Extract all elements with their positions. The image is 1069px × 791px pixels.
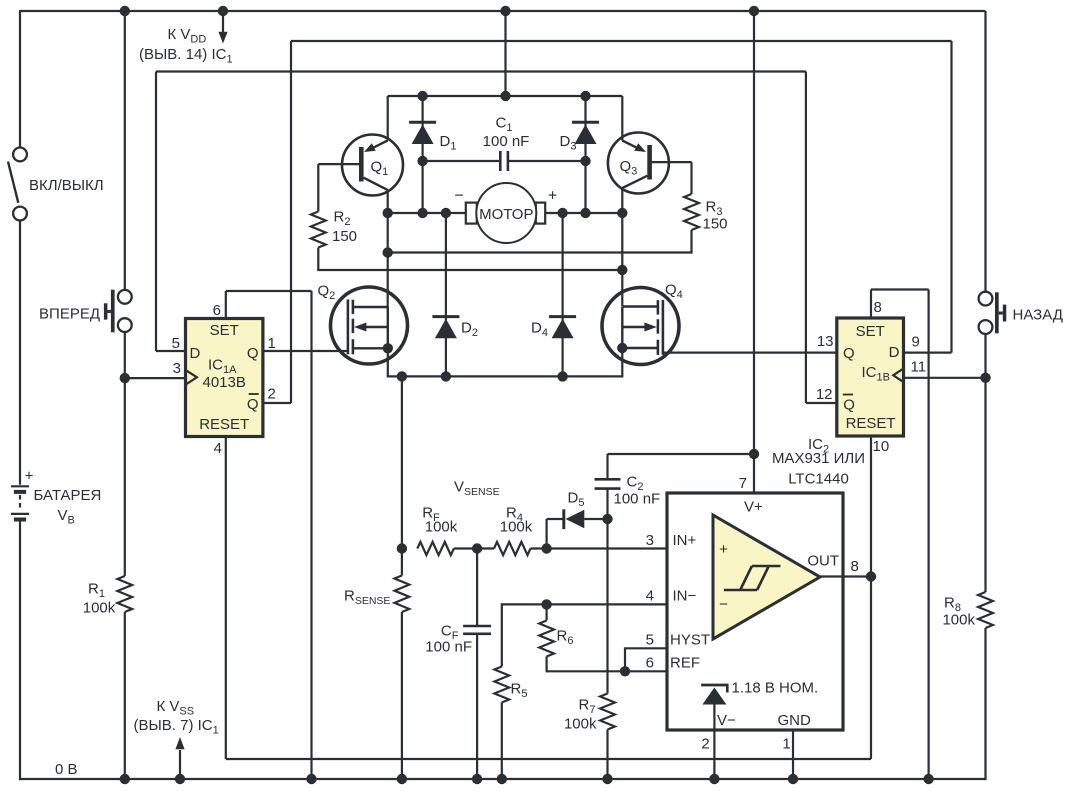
label CF [441,623,459,643]
svg-text:HYST: HYST [670,632,710,649]
svg-text:Q: Q [247,345,259,362]
label Q3 [620,158,638,178]
svg-text:V+: V+ [744,499,763,516]
label C2 [627,474,644,494]
resistor R2 [311,212,326,248]
wire: IC1B pin13 Q to Q4 gate [664,352,837,354]
wire: SET-A ground drop x311 [310,291,312,779]
wire: bridge feed x505 [504,11,506,96]
wire: Q1 base to R2 [317,164,319,211]
wire: R3 to Q2 drain node y252 [388,230,692,253]
junction: top rail / comparator V+ [749,6,759,16]
label V- [717,712,736,729]
svg-text:D: D [889,344,900,361]
resistor R6 [539,621,554,657]
svg-text:GND: GND [778,712,812,729]
svg-text:100k: 100k [425,519,458,536]
junction: REF node [620,666,630,676]
resistor R5 [494,667,509,703]
label IC1B pin13 [817,333,834,350]
svg-text:+: + [719,541,728,558]
label D3 [560,133,577,153]
label IC1B pin12 [816,386,833,403]
svg-text:OUT: OUT [807,553,839,570]
wire: GND pin [792,730,794,779]
capacitor CF [463,549,491,780]
transistor Q1 PNP [318,96,403,307]
wire: bridge source rail y376 [388,348,623,376]
pushbutton SW НАЗАД [979,292,1007,334]
resistor R7 [600,694,615,730]
label D2 [461,320,478,340]
wire: R2 to Q4 drain node y270 [318,248,622,271]
junction: top rail / D3 [580,91,590,101]
svg-text:6: 6 [646,655,654,672]
label IC1B RESET [846,415,896,432]
wire: HYST jumper [625,608,766,672]
label motor minus [454,188,463,205]
label Q2 [318,283,336,303]
wire: motor rail left [388,212,466,214]
resistor R8 [978,592,993,628]
wire: V+ feed [753,11,755,493]
label battery + [25,468,34,485]
junction: clock node B [980,373,990,383]
wire: left battery branch middle [19,220,21,484]
junction: top rail / bridge feed [500,6,510,16]
label R1 [88,581,105,601]
junction: RF / R4 / CF [472,543,482,553]
junction: top rail / feed [500,91,510,101]
wire: QbarA to IC1A pin2 [263,402,291,404]
junction: motor right / D4 [557,208,567,218]
svg-text:8: 8 [851,558,859,575]
label IC1A D [190,345,201,362]
label pin1 [782,736,790,753]
diode D3 [572,96,599,213]
label MAX931 ИЛИ [772,450,865,467]
wire: clock A to IC1A pin3 [125,377,186,379]
power tap К VSS (ВЫВ. 7) IC1 arrow [175,737,184,779]
motor M МОТОР [466,183,545,243]
junction: top rail / D1 [417,91,427,101]
label C2 100 nF [614,491,661,508]
label IC1A pin6 [213,302,221,319]
junction: IN- / R6 [541,599,551,609]
battery B1 V_B [11,486,29,519]
transistor Q2 NMOS [331,287,408,364]
svg-text:100k: 100k [500,519,533,536]
label R5 [511,681,528,701]
label ВКЛ/ВЫКЛ [29,177,104,194]
resistor RSENSE [395,576,410,613]
svg-text:0 В: 0 В [55,761,78,778]
label 1.18 В НОМ. [732,680,819,697]
svg-text:+: + [25,468,34,485]
wire: QbarB-to-DA rail y71 [156,70,806,72]
wire: button to clock node [124,332,126,576]
junction: motor right / Q3 collector [617,208,627,218]
svg-text:12: 12 [816,386,833,403]
wire: reset rail y759 [226,758,871,760]
svg-text:100k: 100k [564,716,597,733]
label IC2 [808,436,829,456]
label GND [778,712,812,729]
label К VSS [157,698,195,718]
svg-text:150: 150 [332,228,357,245]
label ВПЕРЕД [39,306,100,323]
label RF [422,505,440,525]
label R6 [557,628,574,648]
label triangle minus [719,596,728,613]
wire: R6 bottom to REF node [547,657,625,672]
svg-text:LTC1440: LTC1440 [788,471,849,488]
svg-text:НАЗАД: НАЗАД [1013,307,1063,324]
transistor Q4 NMOS [602,288,679,365]
IC1B clock triangle pin11 [893,369,903,383]
flip-flop IC1A 4013B body [186,319,263,437]
svg-text:2: 2 [268,386,276,403]
svg-text:100k: 100k [942,612,975,629]
wire: Rsense bottom [401,612,403,779]
wire: SET-B ground drop x928 [927,290,929,780]
label REF [670,655,700,672]
capacitor C2 [595,454,755,519]
svg-text:5: 5 [172,335,180,352]
label IC1A pin5 [172,335,180,352]
wire: top VDD rail [20,10,986,12]
svg-text:100 nF: 100 nF [483,133,530,150]
label LTC1440 [788,471,849,488]
transistor Q3 PNP [608,96,692,306]
svg-text:100 nF: 100 nF [614,491,661,508]
wire: QbarA riser x291 [290,41,292,403]
pushbutton SW ВПЕРЕД [104,290,132,333]
comparator IC2 triangle [713,515,820,639]
svg-text:−: − [719,596,728,613]
svg-text:IN+: IN+ [673,532,697,549]
IC1B Qbar overbar [843,394,853,396]
wire: left battery branch lower [19,522,21,781]
svg-text:Q: Q [247,396,259,413]
svg-text:Q: Q [843,397,855,414]
svg-text:1: 1 [268,335,276,352]
switch S1 ВКЛ/ВЫКЛ [8,148,27,221]
label IC1B Qbar [843,397,855,414]
diode D1 [409,96,436,213]
svg-text:7: 7 [739,475,747,492]
label V+ [744,499,763,516]
label IC1B SET [856,323,885,340]
label (ВЫВ. 7) IC1 [134,717,219,737]
label R3 [706,199,723,219]
svg-text:V−: V− [717,712,736,729]
svg-text:9: 9 [912,334,920,351]
label IN+ [673,532,697,549]
label IC1A RESET [199,416,249,433]
power tap К VDD (ВЫВ. 14) IC1 arrow [218,11,227,44]
label triangle plus [719,541,728,558]
label К VDD [168,26,207,46]
label IC1B pin11 [911,359,927,376]
svg-text:3: 3 [646,532,654,549]
junction: motor left / D2 [441,208,451,218]
junction: C1 right / D3 [580,156,590,166]
svg-text:13: 13 [817,333,834,350]
label (ВЫВ. 14) IC1 [139,46,233,66]
wire: IC1A pin4 RESET drop [225,437,227,760]
svg-text:(ВЫВ. 14) IC1: (ВЫВ. 14) IC1 [139,46,233,66]
flip-flop IC1B body [837,318,904,436]
label R2 [334,209,351,229]
svg-text:MAX931 ИЛИ: MAX931 ИЛИ [772,450,865,467]
label pin8 out [851,558,859,575]
wire: Rsense top [401,376,403,575]
svg-text:−: − [454,188,463,205]
label IC1A SET [210,322,239,339]
label R7 [579,697,596,717]
wire: IC1A pin6 SET [226,291,312,319]
label IC1A pin2 [268,386,276,403]
wire: bridge top rail y96 [388,95,623,97]
label HYST [670,632,710,649]
wire: REF line to reference [625,671,714,683]
svg-text:1: 1 [782,736,790,753]
junction: motor left / D1 [417,208,427,218]
diode D2 [432,213,459,376]
resistor R7 wire top [606,519,608,694]
label IC1A Q [247,345,259,362]
wire: R8 to 0V rail [984,628,986,780]
svg-text:RESET: RESET [846,415,896,432]
label НАЗАД [1013,307,1063,324]
wire: DB drop x951 [950,41,952,353]
wire: bottom 0V rail [19,778,986,780]
label R4 [506,505,523,525]
junction: GND / 0V [788,774,798,784]
wire: DA drop x156 [155,72,157,352]
svg-text:4013B: 4013B [203,374,246,391]
label IC1B [862,364,890,384]
label pin4 [646,588,654,605]
junction: R2 line / Q4 drain [617,265,627,275]
label C1 100 nF [483,133,530,150]
wire: IC1B pin9 D [904,352,952,354]
label V_B [58,507,75,527]
label pin6 [646,655,654,672]
svg-text:(ВЫВ. 7) IC1: (ВЫВ. 7) IC1 [134,717,219,737]
junction: motor left / Q1 collector [383,208,393,218]
wire: IC1B pin8 SET [871,290,929,319]
label IN- [673,588,697,605]
diode D4 [549,213,576,376]
label R7 100k [564,716,597,733]
wire: IC1A pin5 D [156,350,186,352]
label IC1B pin9 [912,334,920,351]
resistor R6 top wire [545,604,547,620]
label IC1B pin10 [873,438,890,455]
svg-text:ВПЕРЕД: ВПЕРЕД [39,306,100,323]
wire: R7 bottom [606,730,608,780]
junction: source rail / D4 [557,371,567,381]
label VSENSE [454,479,500,499]
junction: Rsense / 0V [397,774,407,784]
label R2 150 [332,228,357,245]
junction: 0V rail / VSS tap [175,774,185,784]
label motor plus [548,188,557,205]
junction: C1 left / D1 [417,156,427,166]
label IC1A pin3 [173,360,181,377]
junction: D5 / C2 / R7 [602,514,612,524]
svg-text:150: 150 [703,216,728,233]
label IC1A 4013B [203,374,246,391]
wire: R1 to 0V [124,612,126,779]
wire: QbarA-to-DB rail y41 [291,40,952,42]
wire: R4 to IN+ node [531,547,547,549]
label pin2 [701,736,709,753]
wire: motor rail right [545,212,623,214]
junction: motor right / D3 [580,208,590,218]
diode D5 [547,509,608,548]
junction: V- / 0V [709,774,719,784]
svg-text:10: 10 [873,438,890,455]
resistor R3 [684,194,699,230]
svg-text:SET: SET [210,322,239,339]
reference diode 1.18V [701,685,728,779]
comparator IC2 box [667,493,843,730]
junction: top rail / VDD tap [218,6,228,16]
svg-text:1.18 В НОМ.: 1.18 В НОМ. [732,680,819,697]
svg-text:8: 8 [874,299,882,316]
label IC1A Qbar [247,394,259,413]
svg-text:SET: SET [856,323,885,340]
wire: back branch from top rail [984,11,986,292]
junction: C2 / V+ line [749,449,759,459]
svg-text:+: + [548,188,557,205]
label IC1B Q [843,345,855,362]
label R1 100k [83,600,116,617]
junction: CF / 0V [472,774,482,784]
label R4 100k [500,519,533,536]
svg-text:6: 6 [213,302,221,319]
junction: OUT node [866,571,876,581]
label IC1A [208,357,237,377]
svg-text:IN−: IN− [673,588,697,605]
svg-text:ВКЛ/ВЫКЛ: ВКЛ/ВЫКЛ [29,177,104,194]
svg-text:11: 11 [911,359,927,376]
label БАТАРЕЯ [34,487,102,504]
svg-text:БАТАРЕЯ: БАТАРЕЯ [34,487,102,504]
label D5 [568,490,585,510]
label IC1B pin8 [874,299,882,316]
label Q1 [371,159,389,179]
wire: forward branch from top rail [124,11,126,290]
label OUT [807,553,839,570]
svg-text:Q: Q [843,345,855,362]
wire: QbarB to IC1B pin12 [806,402,837,404]
wire: IN+ line to comparator [547,547,713,549]
junction: R3 line / Q2 drain [383,247,393,257]
junction: Vsense node [397,543,407,553]
svg-text:100 nF: 100 nF [425,639,472,656]
wire: back button to clock node B [984,334,986,592]
wire: RF right to CF node [454,547,494,549]
label pin3 [646,532,654,549]
junction: SET-A / 0V rail [306,774,316,784]
svg-text:4: 4 [646,588,654,605]
svg-text:5: 5 [646,632,654,649]
junction: SET-B / 0V rail [923,774,933,784]
svg-text:REF: REF [670,655,700,672]
label IC1B D [889,344,900,361]
junction: source rail / Rsense [397,371,407,381]
junction: R1 / 0V rail [120,774,130,784]
label R8 100k [942,612,975,629]
label C1 [496,115,513,135]
wire: IC1A pin1 Q to Q2 gate [263,350,347,352]
label RSENSE [344,588,390,608]
wire: OUT line [820,575,871,577]
wire: OUT to reset rail [870,577,872,760]
label 0 В [55,761,78,778]
svg-text:2: 2 [701,736,709,753]
svg-text:3: 3 [173,360,181,377]
junction: R5 / 0V [497,774,507,784]
junction: clock node A [120,373,130,383]
label CF 100 nF [425,639,472,656]
junction: R7 / 0V [602,774,612,784]
junction: IN+ node [541,543,551,553]
label Q4 [665,282,683,302]
junction: top rail / forward button [120,6,130,16]
wire: QbarB riser x806 [805,72,807,404]
svg-text:МОТОР: МОТОР [479,206,533,223]
junction: source rail / D2 [441,371,451,381]
wire: IC1B pin10 RESET drop [870,437,872,578]
wire: Q3 base to R3 [690,162,692,194]
resistor R1 [117,576,132,612]
label D4 [531,320,548,340]
wire: IC1B pin11 clock [904,377,986,379]
label RF 100k [425,519,458,536]
svg-text:RESET: RESET [199,416,249,433]
label IC1A pin4 [214,440,222,457]
svg-text:100k: 100k [83,600,116,617]
comparator hysteresis symbol [724,566,781,590]
resistor R4 [494,542,531,555]
svg-text:4: 4 [214,440,222,457]
capacitor C1 [423,151,586,171]
wire: left battery branch upper [19,10,21,147]
IC1A clock triangle pin3 [186,370,197,385]
wire: IN- line [502,604,713,666]
label pin7 [739,475,747,492]
resistor RF [417,542,454,555]
svg-text:D: D [190,345,201,362]
label R8 [944,595,961,615]
label D1 [440,133,457,153]
wire: R5 bottom [501,703,503,780]
label R3 150 [703,216,728,233]
label pin5 [646,632,654,649]
label IC1A pin1 [268,335,276,352]
